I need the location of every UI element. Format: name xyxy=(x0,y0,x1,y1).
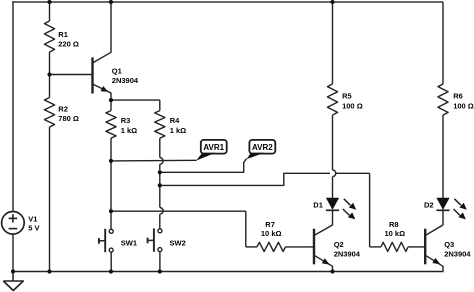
svg-text:2N3904: 2N3904 xyxy=(444,249,471,258)
svg-text:Q2: Q2 xyxy=(334,240,344,249)
svg-text:R4: R4 xyxy=(170,116,180,125)
svg-text:1 kΩ: 1 kΩ xyxy=(170,126,186,135)
svg-text:100 Ω: 100 Ω xyxy=(342,102,363,111)
svg-text:2N3904: 2N3904 xyxy=(334,249,361,258)
svg-text:SW1: SW1 xyxy=(121,239,137,248)
svg-text:Q1: Q1 xyxy=(112,67,122,76)
svg-text:2N3904: 2N3904 xyxy=(112,76,139,85)
svg-text:1 kΩ: 1 kΩ xyxy=(121,126,137,135)
svg-text:R1: R1 xyxy=(58,30,68,39)
svg-text:Q3: Q3 xyxy=(444,240,454,249)
svg-text:D2: D2 xyxy=(424,201,434,210)
svg-text:R8: R8 xyxy=(389,220,399,229)
svg-text:220 Ω: 220 Ω xyxy=(58,40,79,49)
svg-text:AVR1: AVR1 xyxy=(203,143,224,152)
svg-text:SW2: SW2 xyxy=(170,239,186,248)
svg-text:100 Ω: 100 Ω xyxy=(453,102,474,111)
svg-text:780 Ω: 780 Ω xyxy=(58,114,79,123)
svg-text:AVR2: AVR2 xyxy=(252,143,273,152)
svg-text:R2: R2 xyxy=(58,104,68,113)
svg-text:R7: R7 xyxy=(265,220,275,229)
svg-text:R3: R3 xyxy=(121,116,131,125)
svg-text:R5: R5 xyxy=(342,91,352,100)
svg-text:R6: R6 xyxy=(453,91,463,100)
svg-text:10 kΩ: 10 kΩ xyxy=(261,229,282,238)
svg-text:10 kΩ: 10 kΩ xyxy=(385,229,406,238)
svg-text:5 V: 5 V xyxy=(28,224,39,233)
svg-text:D1: D1 xyxy=(313,201,323,210)
svg-text:V1: V1 xyxy=(28,215,37,224)
